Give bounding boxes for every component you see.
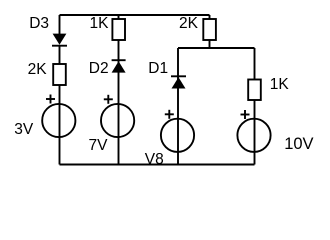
svg-text:2K: 2K — [28, 61, 48, 78]
wire mid horizontal (2K output node) — [178, 47, 255, 49]
source V 10V circle — [237, 119, 270, 152]
svg-text:D3: D3 — [29, 15, 49, 32]
resistor 1K (top, branch 2) — [112, 19, 125, 40]
wire branch 2 (top rail through 1K, D2, 7V source to bottom rail) — [118, 15, 120, 165]
svg-text:10V: 10V — [284, 135, 313, 153]
wire 2K top stub — [209, 15, 211, 48]
svg-text:2K: 2K — [179, 15, 199, 32]
wire branch 3 (node to D1, V8 source, bottom rail) — [177, 48, 179, 165]
svg-text:D1: D1 — [148, 60, 168, 77]
source V 3V circle — [42, 104, 75, 137]
source 10V plus sign — [241, 110, 250, 119]
svg-text:D2: D2 — [89, 60, 109, 77]
diode D2 (cathode up) — [112, 60, 126, 72]
wire branch 1 lower (2K through 3V source to bottom rail) — [59, 85, 61, 165]
diode D1 (cathode up) — [171, 76, 186, 88]
resistor 2K (top right) — [203, 19, 216, 40]
wire bottom rail — [60, 164, 255, 166]
svg-text:1K: 1K — [90, 15, 110, 32]
source 7V plus sign — [104, 95, 113, 104]
source V8 circle — [161, 119, 194, 152]
svg-text:3V: 3V — [14, 121, 34, 138]
source 3V plus sign — [46, 95, 55, 104]
source V 7V circle — [101, 104, 134, 137]
svg-text:V8: V8 — [145, 151, 164, 168]
resistor 2K (left, branch 1) — [53, 64, 66, 85]
wire branch 4 (node through 1K right, 10V source to bottom rail) — [254, 48, 256, 165]
svg-text:7V: 7V — [89, 137, 109, 154]
wire top rail — [60, 14, 210, 16]
resistor 1K (right, branch 4) — [248, 80, 261, 101]
svg-text:1K: 1K — [270, 76, 290, 93]
wire branch 1 upper (node to D3) — [59, 15, 61, 35]
wire branch 1 middle (D3 to R 2K) — [59, 45, 61, 65]
diode D3 (cathode down) — [52, 34, 67, 46]
source V8 plus sign — [165, 110, 174, 119]
